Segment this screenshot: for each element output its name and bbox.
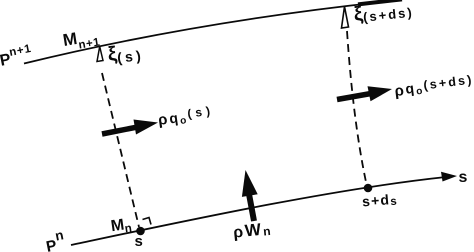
svg-text:s: s [459, 169, 468, 186]
svg-text:s: s [135, 233, 143, 250]
